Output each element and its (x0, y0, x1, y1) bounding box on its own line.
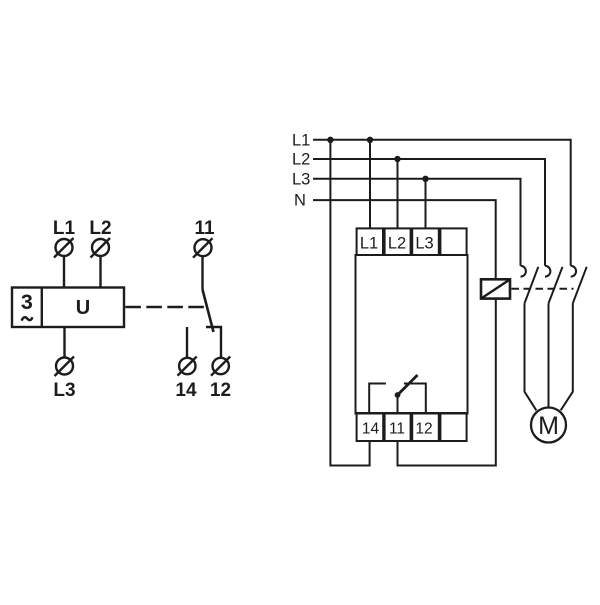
wire line L1 horizontal + right drop to contactor (313, 140, 571, 266)
dashed mechanical link from U to contact (125, 306, 204, 308)
wire L1 to relay box (63, 256, 65, 288)
terminal box 14 (357, 413, 384, 441)
coil slash (481, 280, 510, 299)
svg-text:11: 11 (389, 421, 405, 438)
internal contact bracket 14 (369, 384, 386, 414)
svg-text:U: U (76, 297, 90, 319)
NC bar of terminal 12 (206, 327, 221, 358)
motor M (531, 408, 566, 443)
terminal L1 (screw circle) (54, 238, 74, 258)
wire line N horizontal + drop to coil (313, 200, 496, 279)
contactor contact 1 fixed arc (521, 266, 526, 277)
svg-text:11: 11 (194, 218, 215, 239)
svg-text:M: M (538, 412, 559, 440)
wire L1 drop to device terminal (369, 140, 371, 229)
label ~ (AC) (22, 317, 33, 320)
terminal 14 (screw circle) (178, 357, 197, 376)
contactor contact 1 blade (525, 267, 539, 304)
wire L2 to relay box (99, 256, 101, 288)
internal contact common wire 11 (397, 395, 399, 413)
contactor coil K1 (481, 279, 510, 298)
wire motor phase 1 (525, 303, 537, 410)
junction dot L1/branch14 (327, 137, 333, 143)
svg-text:L3: L3 (53, 380, 75, 401)
device body (relay module) (356, 255, 468, 414)
terminal box L1 (357, 228, 383, 255)
wire motor phase 2 (548, 303, 550, 407)
internal contact bracket 12 (404, 384, 426, 414)
svg-text:L3: L3 (415, 235, 433, 253)
svg-text:L2: L2 (89, 218, 111, 239)
divider of relay box (41, 288, 43, 328)
wire L3 from relay box (63, 327, 65, 358)
wire terminal 11 down to bus to coil bottom (398, 299, 496, 466)
wire L2 drop to device terminal (397, 159, 399, 228)
terminal box blank top (440, 228, 466, 255)
terminal box 12 (412, 413, 439, 441)
svg-text:L1: L1 (360, 235, 378, 253)
contactor contact 2 fixed arc (545, 266, 550, 277)
terminal L2 (screw circle) (91, 238, 111, 258)
svg-text:L3: L3 (292, 171, 310, 189)
terminal L3 (screw circle) (55, 357, 75, 377)
terminal box blank bottom (440, 413, 466, 441)
junction dot L2/device (394, 156, 400, 162)
internal contact pivot dot (395, 392, 401, 398)
wire line L3 horizontal + right drop to contactor (313, 179, 521, 266)
svg-text:3: 3 (21, 290, 33, 314)
svg-text:N: N (294, 192, 306, 210)
svg-text:14: 14 (362, 421, 380, 438)
svg-text:L2: L2 (388, 235, 406, 253)
terminal 11 (screw circle) (193, 238, 213, 258)
wire L3 drop to device terminal (425, 179, 427, 229)
wire L1 long drop to bottom bus to terminal 14 (330, 140, 369, 466)
contactor contact 2 blade (549, 267, 563, 304)
terminal box L3 (412, 228, 439, 255)
svg-text:L1: L1 (53, 218, 76, 239)
terminal 12 (screw circle) (211, 357, 230, 376)
wire terminal 14 (186, 327, 188, 358)
relay body U1 (monitoring relay box) (12, 288, 124, 328)
svg-text:L2: L2 (292, 151, 310, 169)
wire motor phase 3 (561, 303, 573, 410)
contact blade (SPDT, resting on 12) (203, 290, 214, 333)
contactor contact 3 blade (573, 267, 587, 304)
internal contact blade (398, 375, 418, 395)
wire line L2 horizontal + right drop to contactor (313, 159, 545, 266)
dashed mechanical link coil to contacts (512, 288, 574, 290)
junction dot L1/device (367, 137, 373, 143)
terminal box 11 (385, 413, 411, 441)
svg-text:L1: L1 (292, 132, 310, 150)
wire 11 to contact (201, 256, 203, 290)
terminal box L2 (385, 228, 411, 255)
junction dot L3/device (422, 176, 428, 182)
svg-text:12: 12 (210, 380, 231, 401)
svg-text:14: 14 (175, 380, 197, 401)
svg-text:12: 12 (415, 421, 432, 438)
contactor contact 3 fixed arc (571, 266, 576, 277)
